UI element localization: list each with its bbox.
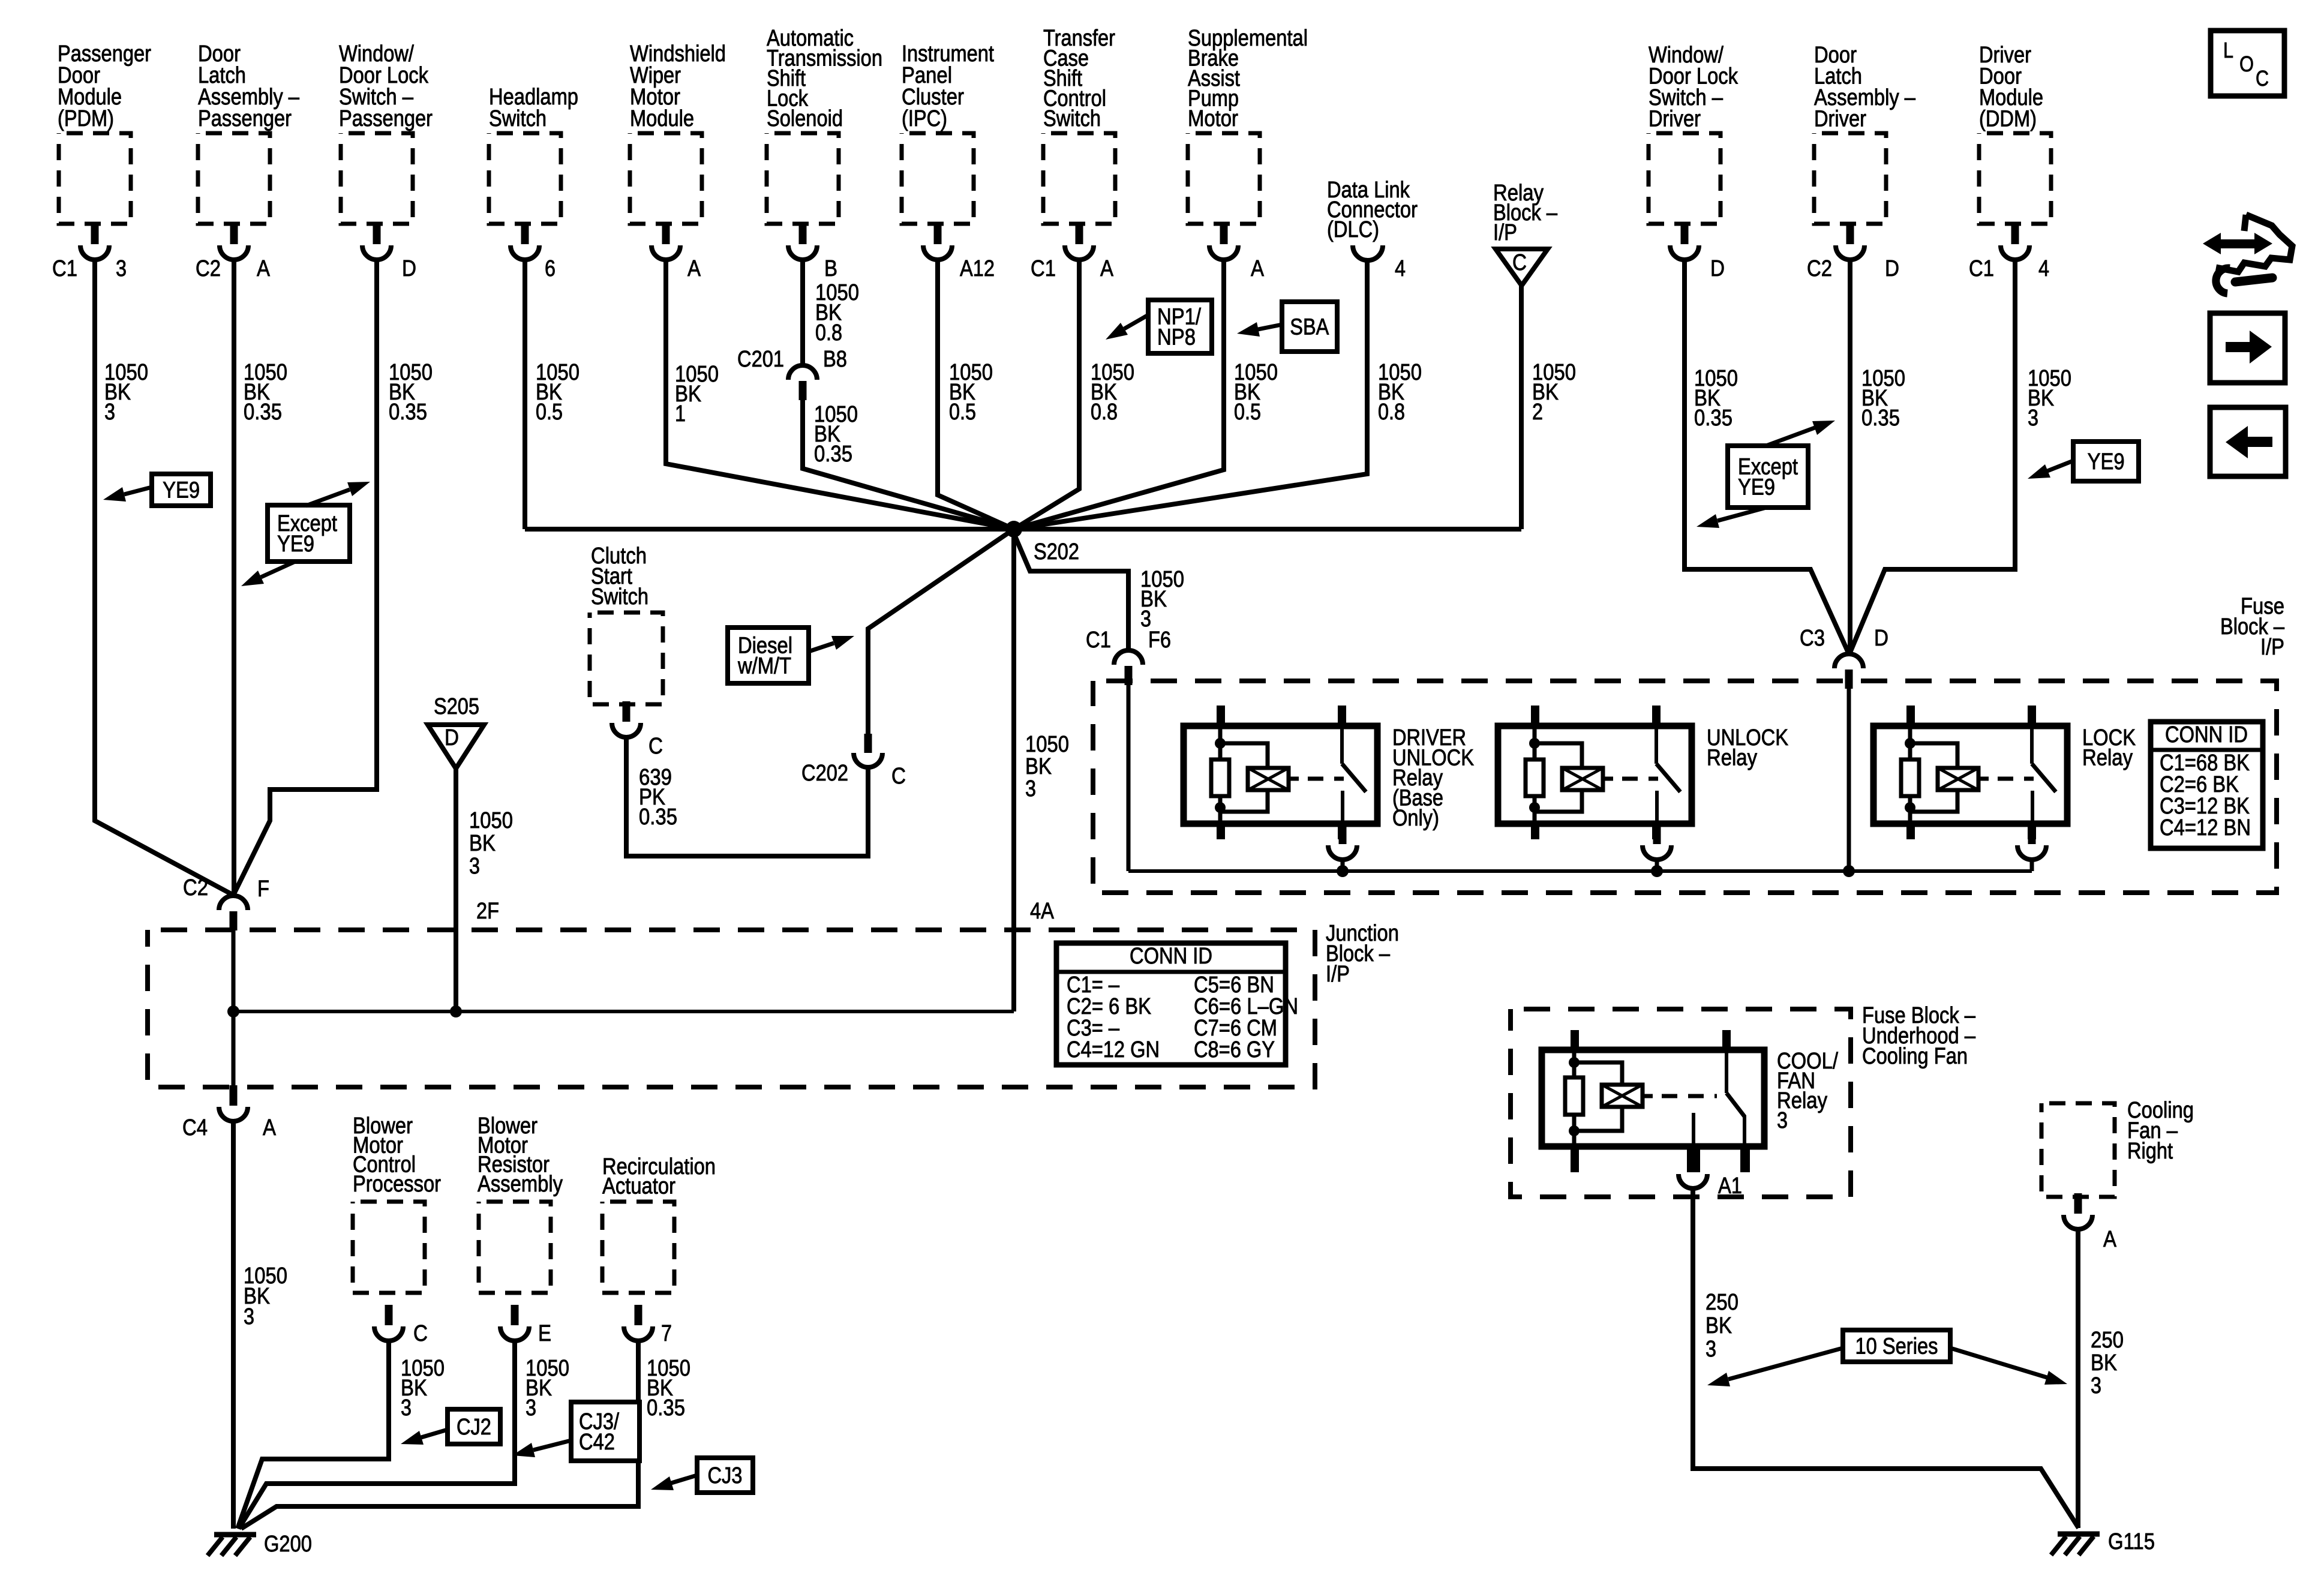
- wire from C3/D to internal bus: [1847, 688, 1851, 871]
- Fuse Block - Underhood - Cooling Fan dashed boundary: [1511, 1009, 1851, 1197]
- wire 1050 BK 3 from blower motor control processor to G200: [238, 1340, 389, 1529]
- svg-text:S205: S205: [434, 694, 479, 719]
- svg-text:Actuator: Actuator: [602, 1173, 675, 1199]
- icon LOC box: [2211, 31, 2284, 96]
- svg-text:Assembly: Assembly: [478, 1172, 563, 1197]
- svg-text:0.35: 0.35: [389, 400, 427, 425]
- svg-text:4: 4: [2038, 256, 2049, 281]
- svg-text:4A: 4A: [1030, 899, 1055, 924]
- component Clutch Start Switch: [590, 544, 663, 704]
- wire relay1 to internal bus: [1341, 858, 1345, 871]
- connector under lock relay: [2028, 824, 2036, 844]
- wire 1050 BK 0.8 from DLC to S202: [1014, 258, 1367, 529]
- svg-text:Switch: Switch: [489, 106, 547, 131]
- component Windshield Wiper Motor Module: [630, 41, 726, 224]
- svg-text:Passenger: Passenger: [339, 106, 433, 131]
- svg-text:0.8: 0.8: [1378, 400, 1405, 425]
- svg-text:C1: C1: [1969, 256, 1994, 281]
- svg-text:L: L: [2223, 38, 2233, 62]
- svg-text:3: 3: [116, 256, 127, 281]
- junction block internal bus: [233, 1010, 1014, 1013]
- svg-text:D: D: [1885, 256, 1899, 281]
- svg-text:0.35: 0.35: [244, 400, 282, 425]
- svg-text:1: 1: [675, 401, 686, 427]
- connector pin of Window/ Door Lock Switch - Driver: [1670, 224, 1699, 260]
- svg-text:0.5: 0.5: [1234, 400, 1261, 425]
- svg-text:A: A: [257, 256, 271, 281]
- component Supplemental Brake Assist Pump Motor: [1188, 26, 1308, 224]
- svg-text:3: 3: [2091, 1373, 2101, 1398]
- svg-text:C1: C1: [1031, 256, 1056, 281]
- svg-text:C4=12 GN: C4=12 GN: [1067, 1037, 1160, 1062]
- wire 1050 BK 3 from C4/A to ground G200: [231, 1120, 236, 1529]
- svg-text:3: 3: [2028, 406, 2038, 431]
- svg-text:Driver: Driver: [1649, 107, 1701, 132]
- svg-text:(PDM): (PDM): [58, 106, 114, 131]
- junction dot S205-bus: [450, 1005, 462, 1017]
- wire relay2 to internal bus: [1655, 858, 1659, 871]
- wire 1050 BK 0.35 from Door Latch Assembly - Passenger: [232, 258, 236, 895]
- ground G115: [2058, 1532, 2100, 1537]
- svg-text:C201: C201: [737, 347, 784, 372]
- svg-text:I/P: I/P: [1326, 962, 1350, 987]
- component Passenger Door Module (PDM): [58, 41, 151, 224]
- component Door Latch Assembly - Passenger: [198, 41, 300, 224]
- svg-text:YE9: YE9: [277, 532, 314, 557]
- wire 1050 BK 0.8 from A/T shift lock solenoid to connector C201: [800, 258, 805, 365]
- wire 1050 BK 3 from S205 to junction bus 2F: [454, 769, 458, 1011]
- svg-text:3: 3: [1025, 776, 1036, 801]
- wire 1050 BK 3 from blower motor resistor to G200: [239, 1340, 515, 1529]
- svg-text:Solenoid: Solenoid: [767, 106, 843, 131]
- wire 1050 BK 3 from S202 to fuse block C1/F6: [1014, 533, 1128, 650]
- svg-text:C2: C2: [183, 875, 208, 900]
- wire 250 BK 3 from cooling fan to ground G115: [2076, 1228, 2080, 1528]
- connector pin of Door Latch Assembly - Passenger: [220, 224, 248, 260]
- component Driver Door Module (DDM): [1979, 43, 2051, 224]
- connector pin E of Blower Motor Resistor Assembly: [511, 1305, 519, 1325]
- Junction Block - I/P dashed boundary: [148, 930, 1315, 1087]
- junction dot C3D-bus: [1843, 865, 1855, 877]
- connector pin of Headlamp Switch: [511, 224, 539, 260]
- svg-text:C8=6 GY: C8=6 GY: [1194, 1037, 1275, 1062]
- component Window/ Door Lock Switch - Driver: [1649, 43, 1739, 224]
- svg-text:3: 3: [244, 1304, 254, 1329]
- connector C2/F into Junction Block: [219, 896, 248, 910]
- wire 1050 BK 3 from PDM C1-3 to splice C2/F: [95, 258, 233, 895]
- svg-text:A: A: [2103, 1227, 2117, 1252]
- wire 639 PK 0.35 from clutch switch to C202: [626, 736, 868, 856]
- connector pin of Automatic Transmission Shift Lock Solenoid: [788, 224, 817, 260]
- svg-text:Switch: Switch: [591, 584, 648, 610]
- svg-text:(IPC): (IPC): [902, 106, 947, 131]
- svg-text:A1: A1: [1718, 1173, 1742, 1199]
- svg-text:B8: B8: [823, 347, 847, 372]
- wire 1050 BK 0.5 from Headlamp Switch to splice S202 bus: [523, 258, 527, 529]
- svg-text:3: 3: [1706, 1337, 1716, 1362]
- svg-text:Relay: Relay: [2082, 746, 2133, 771]
- connector pin C of Blower Motor Control Processor: [385, 1305, 393, 1325]
- connector pin of Windshield Wiper Motor Module: [651, 224, 680, 260]
- wire 1050 BK 3 from S202 down to junction block 4A: [1011, 533, 1016, 1011]
- connector DLC pin 4 (no box, arc only): [1353, 245, 1383, 260]
- component Cooling Fan - Right: [2041, 1098, 2194, 1197]
- svg-text:S202: S202: [1034, 539, 1079, 565]
- flag YE9 (right, points to DDM wire): [2073, 442, 2139, 481]
- connector pin of Passenger Door Module (PDM): [80, 224, 109, 260]
- svg-text:0.35: 0.35: [1861, 406, 1900, 431]
- Fuse Block - I/P dashed boundary: [1093, 681, 2277, 893]
- connector triangle C (Relay Block I/P): [1496, 249, 1548, 286]
- CONN ID table (fuse block): [2151, 722, 2263, 848]
- junction dot C2F-bus: [227, 1005, 239, 1017]
- relay LOCK Relay: [1873, 706, 2067, 839]
- wire 1050 BK 0.35 from C201 to S202: [803, 399, 1014, 529]
- svg-text:0.35: 0.35: [814, 442, 852, 467]
- wire 1050 BK 0.35 from Window/Door Lock Switch - Passenger: [233, 258, 377, 895]
- connector C3/D into Fuse Block I/P: [1834, 654, 1863, 668]
- svg-text:A: A: [1251, 256, 1265, 281]
- svg-text:250: 250: [2091, 1328, 2124, 1353]
- component Blower Motor Control Processor: [353, 1113, 441, 1293]
- svg-text:Relay: Relay: [1707, 746, 1757, 771]
- svg-text:CJ3: CJ3: [707, 1463, 742, 1488]
- svg-text:(DLC): (DLC): [1327, 217, 1379, 242]
- svg-text:D: D: [1710, 256, 1725, 281]
- splice S202 node dot: [1005, 521, 1022, 538]
- svg-text:1050: 1050: [469, 808, 513, 833]
- svg-text:C: C: [2256, 66, 2269, 91]
- flag SBA (points to brake assist wire): [1282, 302, 1337, 352]
- svg-text:F: F: [257, 876, 269, 902]
- svg-text:Module: Module: [630, 106, 694, 131]
- svg-text:C: C: [413, 1321, 428, 1346]
- icon arrow right box: [2210, 313, 2285, 383]
- svg-text:C2: C2: [196, 256, 221, 281]
- wire inside fuse block from C1/F6 to internal bus: [1127, 684, 1131, 871]
- connector C201 (in-line): [788, 365, 817, 380]
- wire 1050 BK 0.8 from Transfer Case switch to S202: [1014, 258, 1079, 529]
- wire 1050 BK 2 from Relay Block C to S202 bus: [1519, 286, 1524, 529]
- ground G200: [214, 1532, 256, 1538]
- svg-text:0.35: 0.35: [639, 804, 677, 830]
- splice S205 triangle: [428, 725, 484, 769]
- svg-text:4: 4: [1395, 256, 1406, 281]
- svg-text:10 Series: 10 Series: [1855, 1334, 1938, 1359]
- relay UNLOCK Relay: [1498, 706, 1692, 839]
- svg-text:C202: C202: [801, 761, 848, 786]
- wire C2/F down inside junction block: [232, 930, 236, 1011]
- wire 250 BK 3 from A1 to ground G115: [1693, 1187, 2079, 1528]
- wire from junction bus down to C4/A: [232, 1011, 236, 1088]
- wire 1050 BK 0.5 from Supplemental Brake Assist Pump Motor to S202: [1014, 258, 1224, 529]
- junction dot relay1-bus: [1337, 865, 1349, 877]
- svg-text:0.8: 0.8: [815, 320, 842, 346]
- connector pin C of Clutch Start Switch: [623, 701, 630, 722]
- svg-text:7: 7: [661, 1321, 672, 1346]
- connector under unlock relay: [1653, 824, 1661, 844]
- svg-text:G200: G200: [264, 1532, 312, 1557]
- svg-text:3: 3: [104, 400, 115, 425]
- flag NP1/NP8 (points to transfer case wire): [1148, 300, 1212, 353]
- svg-text:1050: 1050: [1025, 732, 1069, 757]
- wire 1050 BK 0.35 from recirculation actuator to G200: [241, 1340, 638, 1529]
- component Instrument Panel Cluster (IPC): [902, 41, 994, 224]
- svg-text:Right: Right: [2127, 1139, 2173, 1164]
- flag Except YE9 (right): [1728, 446, 1808, 508]
- svg-text:G115: G115: [2108, 1529, 2155, 1554]
- svg-text:Motor: Motor: [1188, 106, 1238, 131]
- wire 1050 BK 0.35 from Window/Door Lock Switch - Driver to C3/D: [1685, 258, 1849, 654]
- connector pin A of Cooling Fan - Right: [2074, 1193, 2082, 1214]
- connector pin of Supplemental Brake Assist Pump Motor: [1209, 224, 1238, 260]
- flag YE9 (left, points to PDM wire): [152, 474, 211, 506]
- fuse block internal ground bus: [1128, 869, 2032, 873]
- svg-text:C4: C4: [182, 1115, 208, 1140]
- svg-text:NP8: NP8: [1157, 325, 1196, 350]
- connector pin of Transfer Case Shift Control Switch: [1065, 224, 1094, 260]
- connector pin of Driver Door Module (DDM): [2001, 224, 2029, 260]
- svg-text:Driver: Driver: [1814, 107, 1866, 132]
- svg-text:C1: C1: [52, 256, 77, 281]
- flag Except YE9 (left, arrows to passenger switch and PDM wires): [268, 505, 350, 562]
- icon wrench with double arrow: [2220, 239, 2256, 248]
- component Automatic Transmission Shift Lock Solenoid: [767, 26, 882, 224]
- svg-text:B: B: [824, 256, 837, 281]
- wire 1050 BK 1 from Windshield Wiper Motor Module to S202: [666, 258, 1014, 529]
- svg-text:D: D: [402, 256, 416, 281]
- connector pin of Door Latch Assembly - Driver: [1836, 224, 1864, 260]
- svg-text:2: 2: [1532, 400, 1543, 425]
- svg-text:A12: A12: [960, 256, 995, 281]
- svg-text:YE9: YE9: [2088, 449, 2125, 475]
- svg-text:3: 3: [1777, 1108, 1788, 1133]
- svg-text:D: D: [445, 725, 459, 751]
- svg-text:(DDM): (DDM): [1979, 107, 2037, 132]
- connector pin 7 of Recirculation Actuator: [635, 1305, 642, 1325]
- svg-text:Switch: Switch: [1043, 106, 1101, 131]
- svg-text:2F: 2F: [476, 899, 499, 924]
- svg-text:A: A: [687, 256, 701, 281]
- svg-text:BK: BK: [1706, 1313, 1732, 1338]
- splice S202 horizontal bus: [525, 527, 1521, 532]
- relay COOL/FAN Relay 3: [1542, 1050, 1764, 1146]
- component Door Latch Assembly - Driver: [1814, 43, 1916, 224]
- svg-text:A: A: [263, 1115, 277, 1140]
- svg-text:Processor: Processor: [353, 1172, 441, 1197]
- flag Diesel w/M/T (points to 1050 wire): [728, 628, 809, 683]
- connector C4/A leaving Junction Block: [230, 1085, 238, 1106]
- svg-text:CJ2: CJ2: [457, 1415, 491, 1440]
- svg-text:D: D: [1874, 626, 1888, 651]
- svg-text:3: 3: [401, 1395, 412, 1421]
- icon arrow left box: [2210, 407, 2286, 476]
- svg-text:w/M/T: w/M/T: [737, 654, 791, 679]
- svg-text:CONN ID: CONN ID: [1130, 944, 1212, 969]
- svg-text:C: C: [1512, 250, 1527, 275]
- flag 10 Series (arrows to both 250 BK 3 wires): [1843, 1330, 1950, 1362]
- svg-text:0.35: 0.35: [647, 1395, 685, 1421]
- wire 1050 BK 0.35 from Door Latch Assembly - Driver to C3/D: [1848, 258, 1852, 653]
- svg-text:0.5: 0.5: [536, 400, 563, 425]
- svg-text:Only): Only): [1392, 806, 1439, 831]
- svg-text:SBA: SBA: [1290, 315, 1329, 340]
- svg-text:6: 6: [545, 256, 556, 281]
- svg-text:BK: BK: [469, 831, 496, 856]
- component Window/ Door Lock Switch - Passenger: [339, 41, 433, 224]
- component Headlamp Switch: [489, 85, 578, 224]
- wire 1050 BK 3 from DDM C1-4 to C3/D: [1849, 258, 2015, 654]
- connector C202 (in-line): [864, 734, 872, 753]
- connector pin of Window/ Door Lock Switch - Passenger: [362, 224, 391, 260]
- svg-text:C: C: [648, 734, 663, 759]
- svg-text:C3: C3: [1800, 626, 1825, 651]
- svg-text:0.8: 0.8: [1091, 400, 1118, 425]
- connector C1/F6 into Fuse Block I/P: [1114, 650, 1143, 665]
- svg-text:O: O: [2239, 52, 2254, 76]
- relay DRIVER UNLOCK Relay (Base Only): [1184, 706, 1377, 839]
- svg-text:0.5: 0.5: [949, 400, 976, 425]
- svg-text:C42: C42: [579, 1430, 615, 1455]
- svg-text:YE9: YE9: [163, 478, 200, 503]
- svg-text:0.35: 0.35: [1694, 406, 1733, 431]
- svg-text:I/P: I/P: [1493, 220, 1517, 245]
- svg-text:250: 250: [1706, 1290, 1739, 1315]
- svg-text:CONN ID: CONN ID: [2165, 722, 2248, 748]
- flag CJ3 (points to recirc wire): [697, 1458, 753, 1493]
- CONN ID table (junction block): [1056, 943, 1286, 1065]
- flag CJ2 (points to blower C wire): [448, 1409, 500, 1444]
- svg-text:C4=12 BN: C4=12 BN: [2160, 815, 2251, 840]
- svg-text:Passenger: Passenger: [198, 106, 292, 131]
- svg-text:C2: C2: [1807, 256, 1832, 281]
- wire 1050 BK 0.35 from S202 to C202: [868, 529, 1014, 734]
- svg-text:BK: BK: [1025, 754, 1052, 779]
- svg-text:3: 3: [526, 1395, 536, 1421]
- flag CJ3/C42 (points to blower E wire): [571, 1402, 639, 1461]
- component Recirculation Actuator: [602, 1154, 716, 1293]
- svg-text:A: A: [1100, 256, 1114, 281]
- svg-text:I/P: I/P: [2260, 635, 2284, 660]
- connector A1 under COOL/FAN relay: [1679, 1174, 1707, 1188]
- connector under driver unlock relay: [1339, 824, 1347, 844]
- connector pin of Instrument Panel Cluster (IPC): [923, 224, 952, 260]
- junction dot relay2-bus: [1651, 865, 1663, 877]
- svg-text:BK: BK: [2091, 1350, 2117, 1376]
- svg-text:YE9: YE9: [1738, 475, 1775, 500]
- component Blower Motor Resistor Assembly: [478, 1113, 563, 1293]
- component Transfer Case Shift Control Switch: [1043, 26, 1115, 224]
- svg-text:F6: F6: [1148, 628, 1171, 653]
- wire relay3 to internal bus: [2030, 858, 2034, 871]
- svg-text:Cooling Fan: Cooling Fan: [1862, 1044, 1968, 1069]
- svg-text:C1: C1: [1086, 628, 1111, 653]
- svg-text:C: C: [891, 764, 906, 789]
- svg-text:E: E: [538, 1321, 551, 1346]
- wire 1050 BK 0.5 from IPC A12 to S202: [938, 258, 1014, 529]
- svg-text:3: 3: [469, 854, 480, 879]
